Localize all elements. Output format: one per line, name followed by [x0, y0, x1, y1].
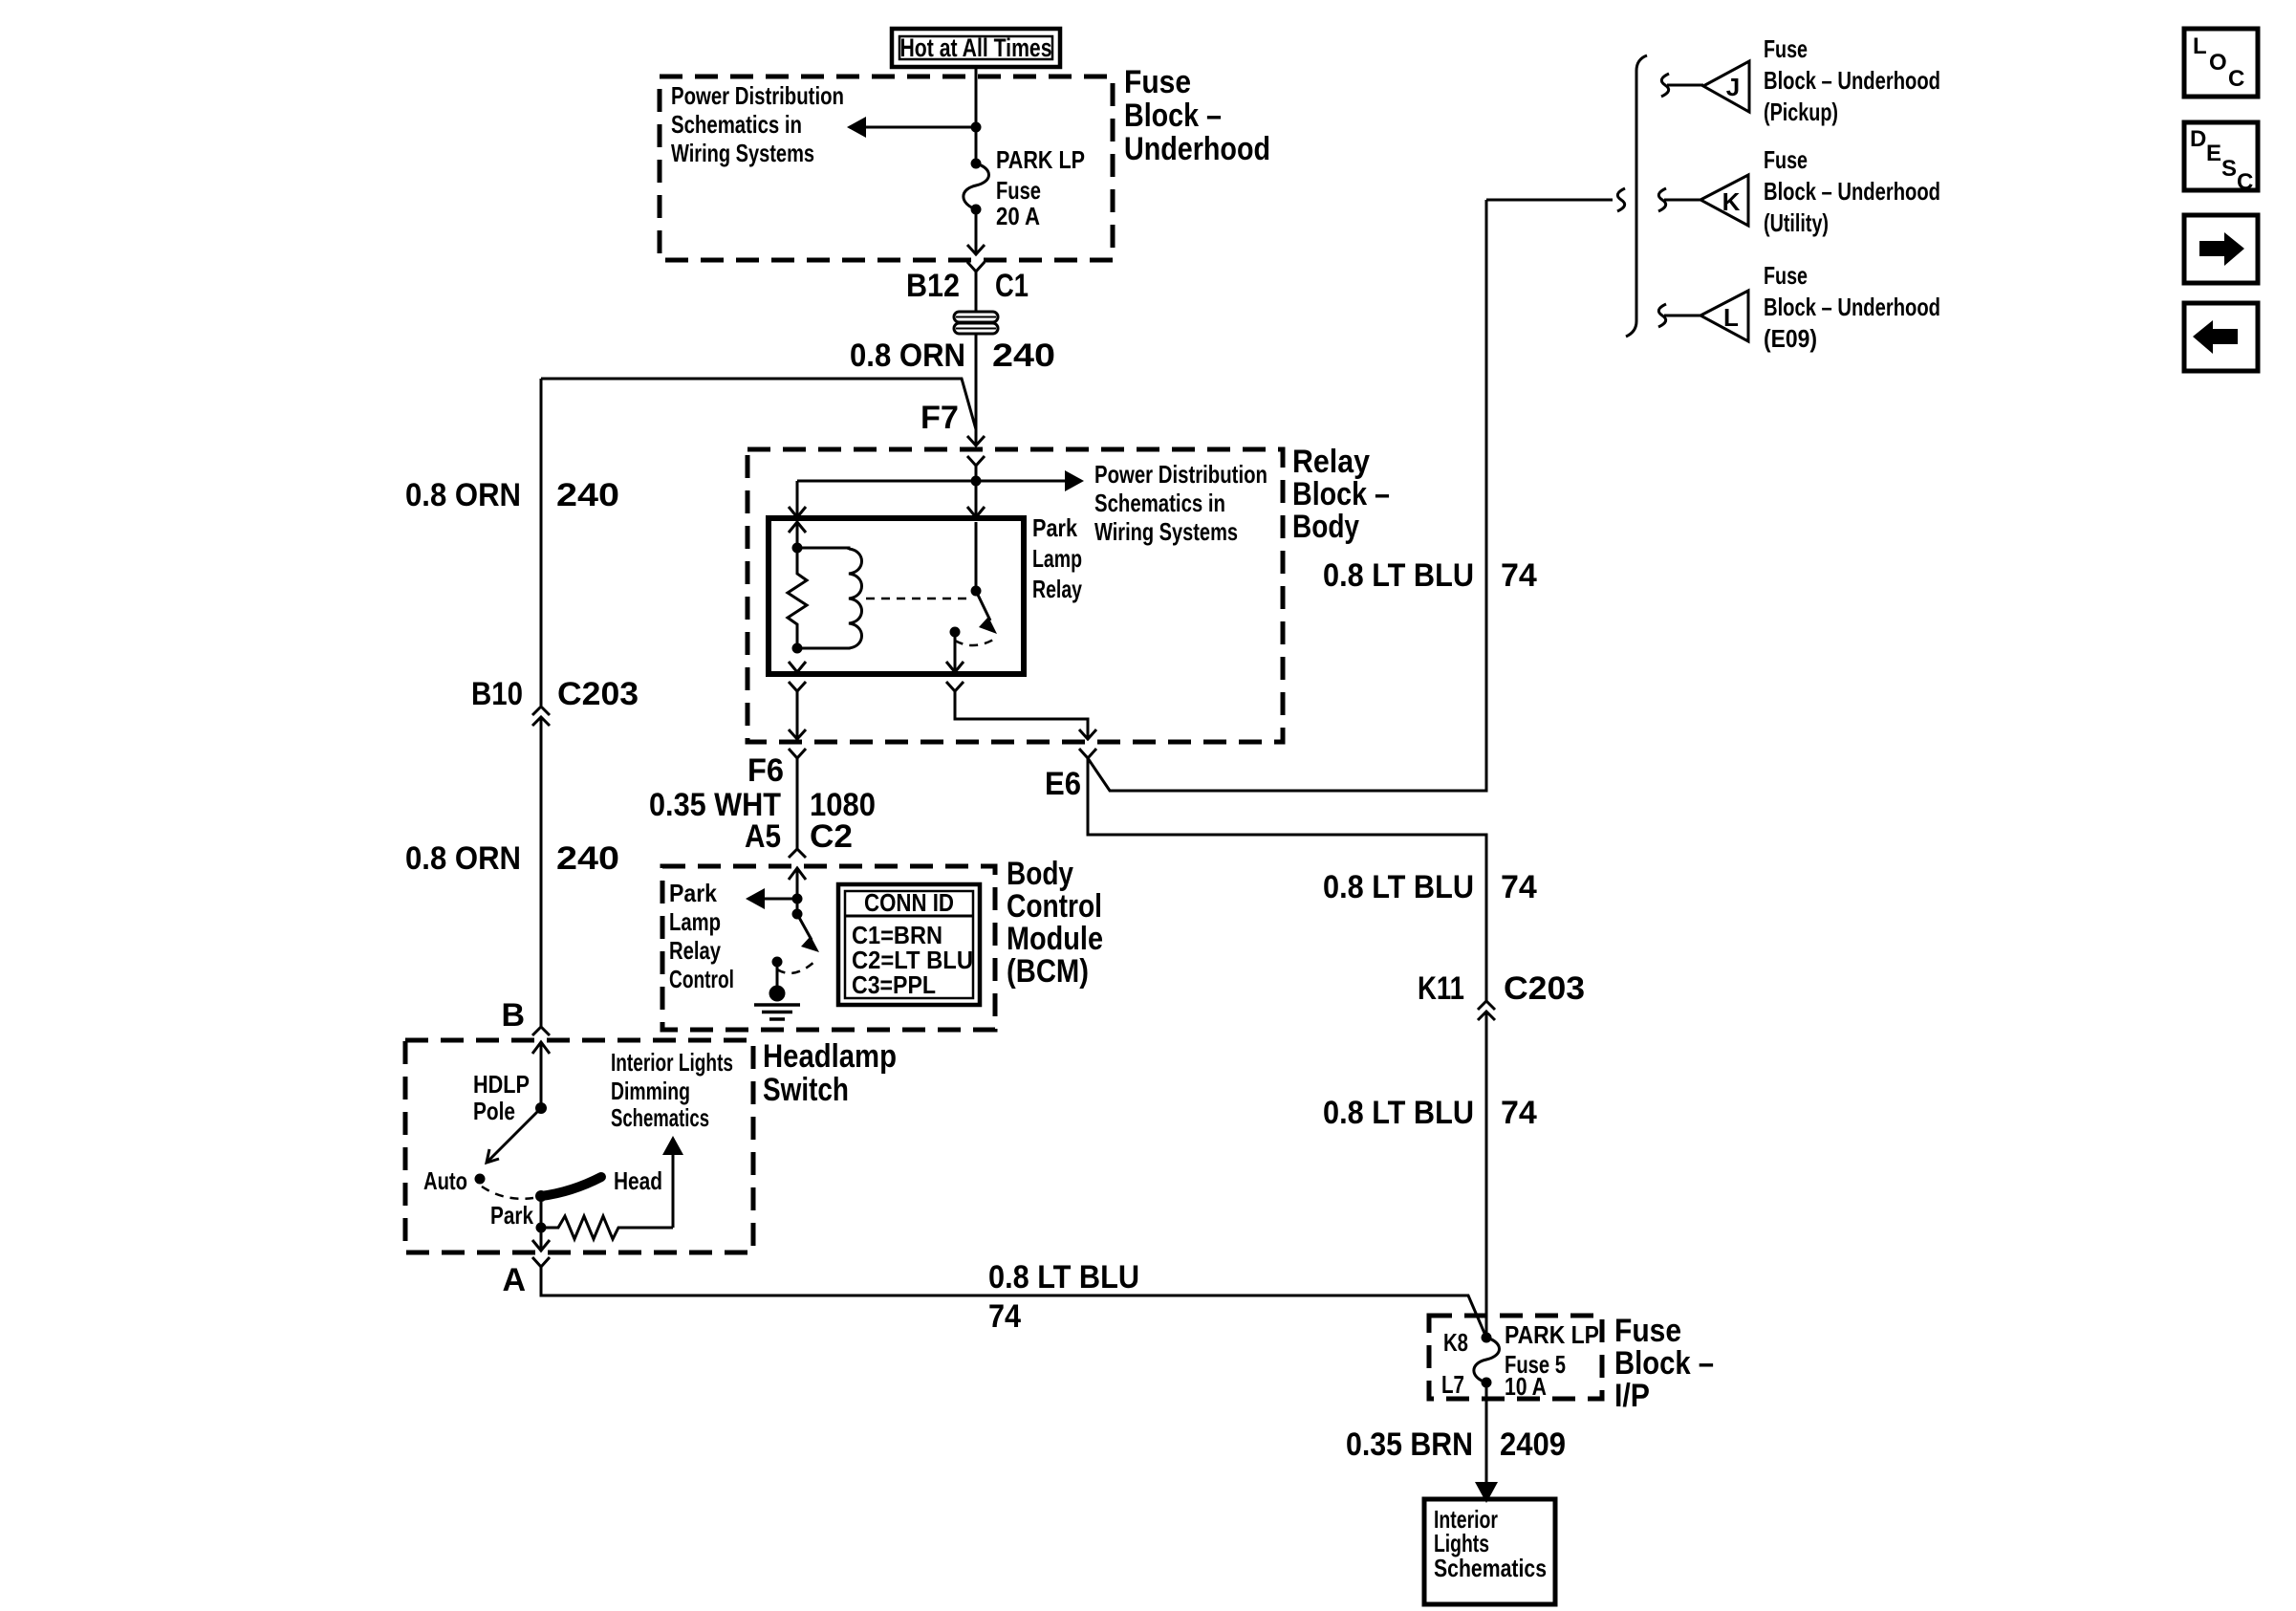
fuse block underhood dashed box: [660, 76, 1113, 260]
svg-text:Relay: Relay: [1292, 444, 1370, 480]
connector triangle K: [1700, 175, 1748, 226]
svg-text:B12: B12: [906, 268, 960, 304]
CONN ID table: [838, 884, 980, 1005]
connector C203 in-line halves (right run): [1478, 1001, 1495, 1020]
headlamp switch dashed box: [405, 1040, 753, 1252]
svg-text:0.8 LT BLU: 0.8 LT BLU: [988, 1259, 1139, 1295]
svg-text:K8: K8: [1443, 1328, 1468, 1357]
svg-text:0.8 ORN: 0.8 ORN: [405, 477, 521, 513]
pin arrow into BCM A5: [789, 868, 806, 914]
svg-text:0.8 ORN: 0.8 ORN: [405, 840, 521, 877]
body control module dashed box: [662, 866, 995, 1030]
BCM driver contact dot: [772, 957, 783, 968]
svg-text:74: 74: [1501, 557, 1537, 594]
switch pole junction dot: [535, 1102, 547, 1114]
svg-text:Power Distribution: Power Distribution: [1094, 460, 1267, 489]
terminal female half below relay (left): [789, 682, 806, 691]
wire relay output to E6: [955, 691, 1088, 739]
svg-text:Schematics: Schematics: [611, 1103, 709, 1132]
svg-text:C203: C203: [1504, 970, 1585, 1007]
wire arrow to power distribution (right): [797, 470, 1084, 491]
svg-text:C: C: [2237, 169, 2253, 195]
nav icon LOC box: [2184, 29, 2258, 97]
svg-text:10 A: 10 A: [1505, 1372, 1547, 1401]
svg-text:S: S: [2221, 156, 2237, 182]
svg-text:Power Distribution: Power Distribution: [671, 81, 844, 110]
pin arrow into park lamp relay (left): [789, 507, 806, 517]
fuse PARK LP Fuse 20 A: [964, 159, 989, 215]
label Fuse Block - Underhood (Pickup): [1764, 34, 1940, 126]
svg-text:K11: K11: [1418, 970, 1464, 1007]
relay coil L1: [797, 548, 862, 648]
wire branch J: [1667, 84, 1703, 87]
grommet P100: [954, 312, 998, 334]
relay coil terminal arrow (left): [789, 522, 806, 533]
svg-text:A5: A5: [745, 818, 781, 855]
wire F7 to junction: [975, 466, 978, 517]
svg-text:Relay: Relay: [669, 936, 721, 965]
svg-text:Relay: Relay: [1032, 575, 1082, 603]
svg-text:0.8 LT BLU: 0.8 LT BLU: [1323, 557, 1474, 594]
wire coil return to F6: [796, 691, 799, 739]
svg-text:J: J: [1726, 73, 1740, 101]
svg-text:E: E: [2206, 141, 2221, 166]
svg-text:CONN ID: CONN ID: [864, 888, 954, 917]
connector half above headlamp switch: [532, 1027, 550, 1035]
label Fuse Block - Underhood (E09): [1764, 261, 1940, 353]
svg-text:74: 74: [988, 1298, 1021, 1335]
svg-text:PARK LP: PARK LP: [996, 145, 1085, 174]
svg-text:Control: Control: [669, 965, 734, 993]
svg-text:Block –: Block –: [1292, 476, 1390, 512]
break symbol branch K: [1658, 188, 1666, 211]
svg-text:Schematics in: Schematics in: [1094, 489, 1225, 517]
svg-text:Fuse: Fuse: [1764, 34, 1808, 63]
wire C203 to headlamp switch: [540, 717, 543, 1027]
BCM driver switch arm: [792, 909, 820, 953]
svg-text:Block – Underhood: Block – Underhood: [1764, 177, 1940, 206]
label Fuse Block - Underhood: [1124, 64, 1270, 167]
wire A to fuse block IP: [541, 1267, 1486, 1338]
svg-text:O: O: [2209, 50, 2227, 76]
connector A female half: [532, 1257, 550, 1267]
label Fuse Block - I/P: [1614, 1313, 1714, 1414]
pin arrow relay output (right): [946, 662, 964, 672]
wire F6 down to BCM: [796, 758, 799, 849]
pin arrow into relay block F7: [967, 436, 985, 446]
svg-text:(Pickup): (Pickup): [1764, 98, 1838, 126]
svg-text:240: 240: [556, 840, 619, 877]
junction dot at power distribution tap: [971, 122, 982, 133]
svg-text:(Utility): (Utility): [1764, 208, 1829, 237]
svg-text:(E09): (E09): [1764, 324, 1817, 353]
pin arrow relay coil out (left): [789, 662, 806, 672]
wire relay output: [954, 632, 957, 672]
dashed arc Auto to Park: [482, 1186, 533, 1199]
relay block body dashed box: [747, 449, 1283, 742]
connector F7 female half inside relay block: [967, 456, 985, 466]
wire arrow to interior lights dimming schematics: [662, 1136, 683, 1228]
pin arrow leaving headlamp switch A: [532, 1240, 550, 1251]
svg-text:0.8 LT BLU: 0.8 LT BLU: [1323, 869, 1474, 905]
svg-text:74: 74: [1501, 1095, 1537, 1131]
svg-text:B: B: [501, 997, 525, 1034]
svg-text:Wiring Systems: Wiring Systems: [671, 139, 814, 167]
svg-text:240: 240: [992, 337, 1055, 374]
svg-text:Wiring Systems: Wiring Systems: [1094, 517, 1238, 546]
pin arrow leaving relay block F6: [789, 729, 806, 739]
bundle brace: [1626, 55, 1647, 337]
svg-text:Block –: Block –: [1124, 98, 1222, 134]
nav icon right arrow box: [2184, 215, 2258, 283]
connector F6 female half: [789, 749, 806, 758]
relay contact dot: [950, 627, 961, 638]
svg-text:20 A: 20 A: [996, 202, 1040, 230]
dimming resistor R: [541, 1216, 673, 1239]
connector E6 female half: [1079, 749, 1096, 758]
wire left run 0.8 ORN: [540, 379, 543, 706]
svg-text:D: D: [2190, 126, 2206, 152]
wire arrow to interior lights schematics: [1475, 1382, 1498, 1503]
svg-text:Body: Body: [1007, 856, 1073, 892]
junction dot coil bottom: [792, 643, 803, 654]
svg-text:HDLP: HDLP: [473, 1070, 530, 1099]
dashed arc relay contact: [955, 639, 995, 645]
label HDLP Pole: [473, 1070, 530, 1125]
wire grommet down to relay block: [975, 334, 978, 446]
svg-text:Fuse: Fuse: [1614, 1313, 1681, 1349]
svg-text:Interior Lights: Interior Lights: [611, 1048, 733, 1077]
svg-text:(BCM): (BCM): [1007, 953, 1089, 990]
fuse block IP dashed box: [1429, 1316, 1602, 1399]
svg-text:Block –: Block –: [1614, 1345, 1714, 1382]
value label PARK LP Fuse 5 10 A: [1505, 1320, 1599, 1401]
svg-text:Block – Underhood: Block – Underhood: [1764, 293, 1940, 321]
contact dot Auto: [475, 1174, 486, 1185]
wire C1 to grommet: [975, 272, 978, 312]
terminal female half below relay (right): [946, 682, 964, 691]
wire left branch down to relay: [796, 481, 799, 517]
wire to fuse block bundle: [1486, 199, 1613, 202]
svg-text:Underhood: Underhood: [1124, 131, 1270, 167]
svg-text:Park: Park: [669, 879, 717, 907]
svg-text:Switch: Switch: [763, 1072, 849, 1108]
label Fuse Block - Underhood (Utility): [1764, 145, 1940, 237]
svg-text:L7: L7: [1441, 1370, 1464, 1399]
wire branch L: [1664, 315, 1700, 317]
node B+ Hot at All Times box: [892, 29, 1060, 67]
nav icon DESC box: [2184, 122, 2258, 195]
svg-text:L: L: [1723, 303, 1739, 332]
label Body Control Module (BCM): [1007, 856, 1103, 990]
svg-text:L: L: [2193, 33, 2207, 59]
svg-text:0.8 LT BLU: 0.8 LT BLU: [1323, 1095, 1474, 1131]
svg-text:Body: Body: [1292, 509, 1359, 545]
svg-text:Lamp: Lamp: [1032, 544, 1082, 573]
svg-text:C2: C2: [810, 818, 853, 855]
wire contact to ground: [776, 962, 779, 986]
svg-text:F6: F6: [747, 752, 784, 789]
connector C1 female half: [967, 262, 985, 272]
svg-text:F7: F7: [921, 400, 959, 436]
svg-text:Head: Head: [614, 1166, 662, 1195]
svg-text:Fuse: Fuse: [1124, 64, 1191, 100]
svg-text:E6: E6: [1045, 766, 1081, 802]
nav icon left arrow box: [2184, 303, 2258, 371]
svg-text:0.8 ORN: 0.8 ORN: [850, 337, 965, 374]
svg-text:Schematics in: Schematics in: [671, 110, 802, 139]
ground G (BCM internal): [754, 986, 800, 1020]
svg-text:Park: Park: [490, 1201, 533, 1230]
note Interior Lights Dimming Schematics: [611, 1048, 733, 1132]
wire arrow to park lamp relay control: [746, 888, 797, 909]
svg-text:B10: B10: [471, 676, 523, 712]
svg-text:K: K: [1722, 187, 1741, 216]
dashed arc BCM contact: [777, 961, 815, 973]
svg-text:74: 74: [1501, 869, 1537, 905]
pin arrow into headlamp switch B: [532, 1042, 550, 1108]
svg-text:Schematics: Schematics: [1434, 1554, 1547, 1582]
svg-text:Fuse: Fuse: [996, 176, 1041, 205]
pin arrow leaving relay block E6: [1079, 729, 1096, 739]
label Park Lamp Relay: [1032, 513, 1082, 603]
svg-text:Control: Control: [1007, 888, 1102, 925]
svg-text:A: A: [502, 1262, 526, 1298]
svg-text:Lamp: Lamp: [669, 907, 721, 936]
wire from Hot box to fuse: [975, 67, 978, 163]
wire fuse to block edge: [975, 209, 978, 254]
value label PARK LP Fuse 20 A: [996, 145, 1085, 230]
junction dot in relay block: [971, 476, 982, 487]
wire branch K: [1664, 199, 1700, 202]
junction dot at resistor tap: [536, 1223, 547, 1233]
svg-text:Fuse: Fuse: [1764, 145, 1808, 174]
junction dot BCM input: [792, 894, 803, 904]
svg-text:C3=PPL: C3=PPL: [852, 970, 936, 999]
connector triangle L: [1700, 291, 1748, 341]
svg-text:I/P: I/P: [1614, 1378, 1650, 1414]
label Relay Block - Body: [1292, 444, 1390, 545]
svg-text:Headlamp: Headlamp: [763, 1038, 897, 1075]
pin arrow leaving fuse block: [967, 245, 985, 254]
wire arrow to power distribution schematics: [847, 117, 976, 138]
note Power Distribution Schematics in Wiring Systems: [671, 81, 844, 167]
svg-text:Fuse: Fuse: [1764, 261, 1808, 290]
label Headlamp Switch: [763, 1038, 897, 1108]
wire E6 diagonal to upper right run: [1088, 200, 1486, 791]
wire switch common: [975, 522, 978, 591]
svg-text:C203: C203: [557, 676, 639, 712]
relay U1 Park Lamp Relay box: [769, 518, 1024, 674]
svg-text:240: 240: [556, 477, 619, 513]
svg-text:Park: Park: [1032, 513, 1077, 542]
svg-text:Auto: Auto: [423, 1166, 467, 1195]
wire Park contact down to A: [540, 1196, 543, 1251]
wire branch to left run: [541, 379, 976, 429]
break symbol on feed wire: [1617, 188, 1625, 211]
connector triangle J: [1703, 61, 1749, 112]
svg-text:Hot at All Times: Hot at All Times: [900, 33, 1052, 62]
break symbol branch L: [1658, 304, 1666, 327]
svg-text:PARK LP: PARK LP: [1505, 1320, 1599, 1349]
relay switch arm: [971, 586, 998, 635]
switch lever (thick) toward Head: [541, 1177, 601, 1196]
note Power Distribution Schematics in Wiring Systems (relay): [1094, 460, 1267, 546]
wire E6 down to lower right run: [1088, 758, 1486, 1001]
destination box Interior Lights Schematics: [1424, 1499, 1555, 1604]
fuse PARK LP Fuse 5 10 A: [1474, 1333, 1500, 1388]
note Park Lamp Relay Control: [669, 879, 734, 993]
svg-text:C1: C1: [995, 268, 1029, 304]
svg-text:C: C: [2228, 66, 2244, 92]
pin arrow into park lamp relay (right): [967, 507, 985, 517]
svg-text:Block – Underhood: Block – Underhood: [1764, 66, 1940, 95]
junction dot coil top: [792, 543, 803, 554]
dashed actuation link: [866, 598, 967, 600]
svg-text:0.35 BRN: 0.35 BRN: [1346, 1426, 1473, 1463]
break symbol branch J: [1661, 74, 1669, 97]
connector C2 half above BCM: [789, 849, 806, 858]
wire coil feed: [796, 522, 799, 548]
svg-text:Pole: Pole: [473, 1097, 515, 1125]
resistor in relay: [788, 548, 807, 648]
wire C203 down to fuse block IP: [1485, 1012, 1488, 1338]
svg-text:Module: Module: [1007, 921, 1103, 957]
connector C203 in-line halves (left run): [532, 707, 550, 726]
svg-text:Dimming: Dimming: [611, 1077, 690, 1105]
switch pole arm toward Auto: [487, 1108, 541, 1163]
svg-text:2409: 2409: [1500, 1426, 1566, 1463]
contact dot Park / lever pivot: [535, 1190, 547, 1202]
